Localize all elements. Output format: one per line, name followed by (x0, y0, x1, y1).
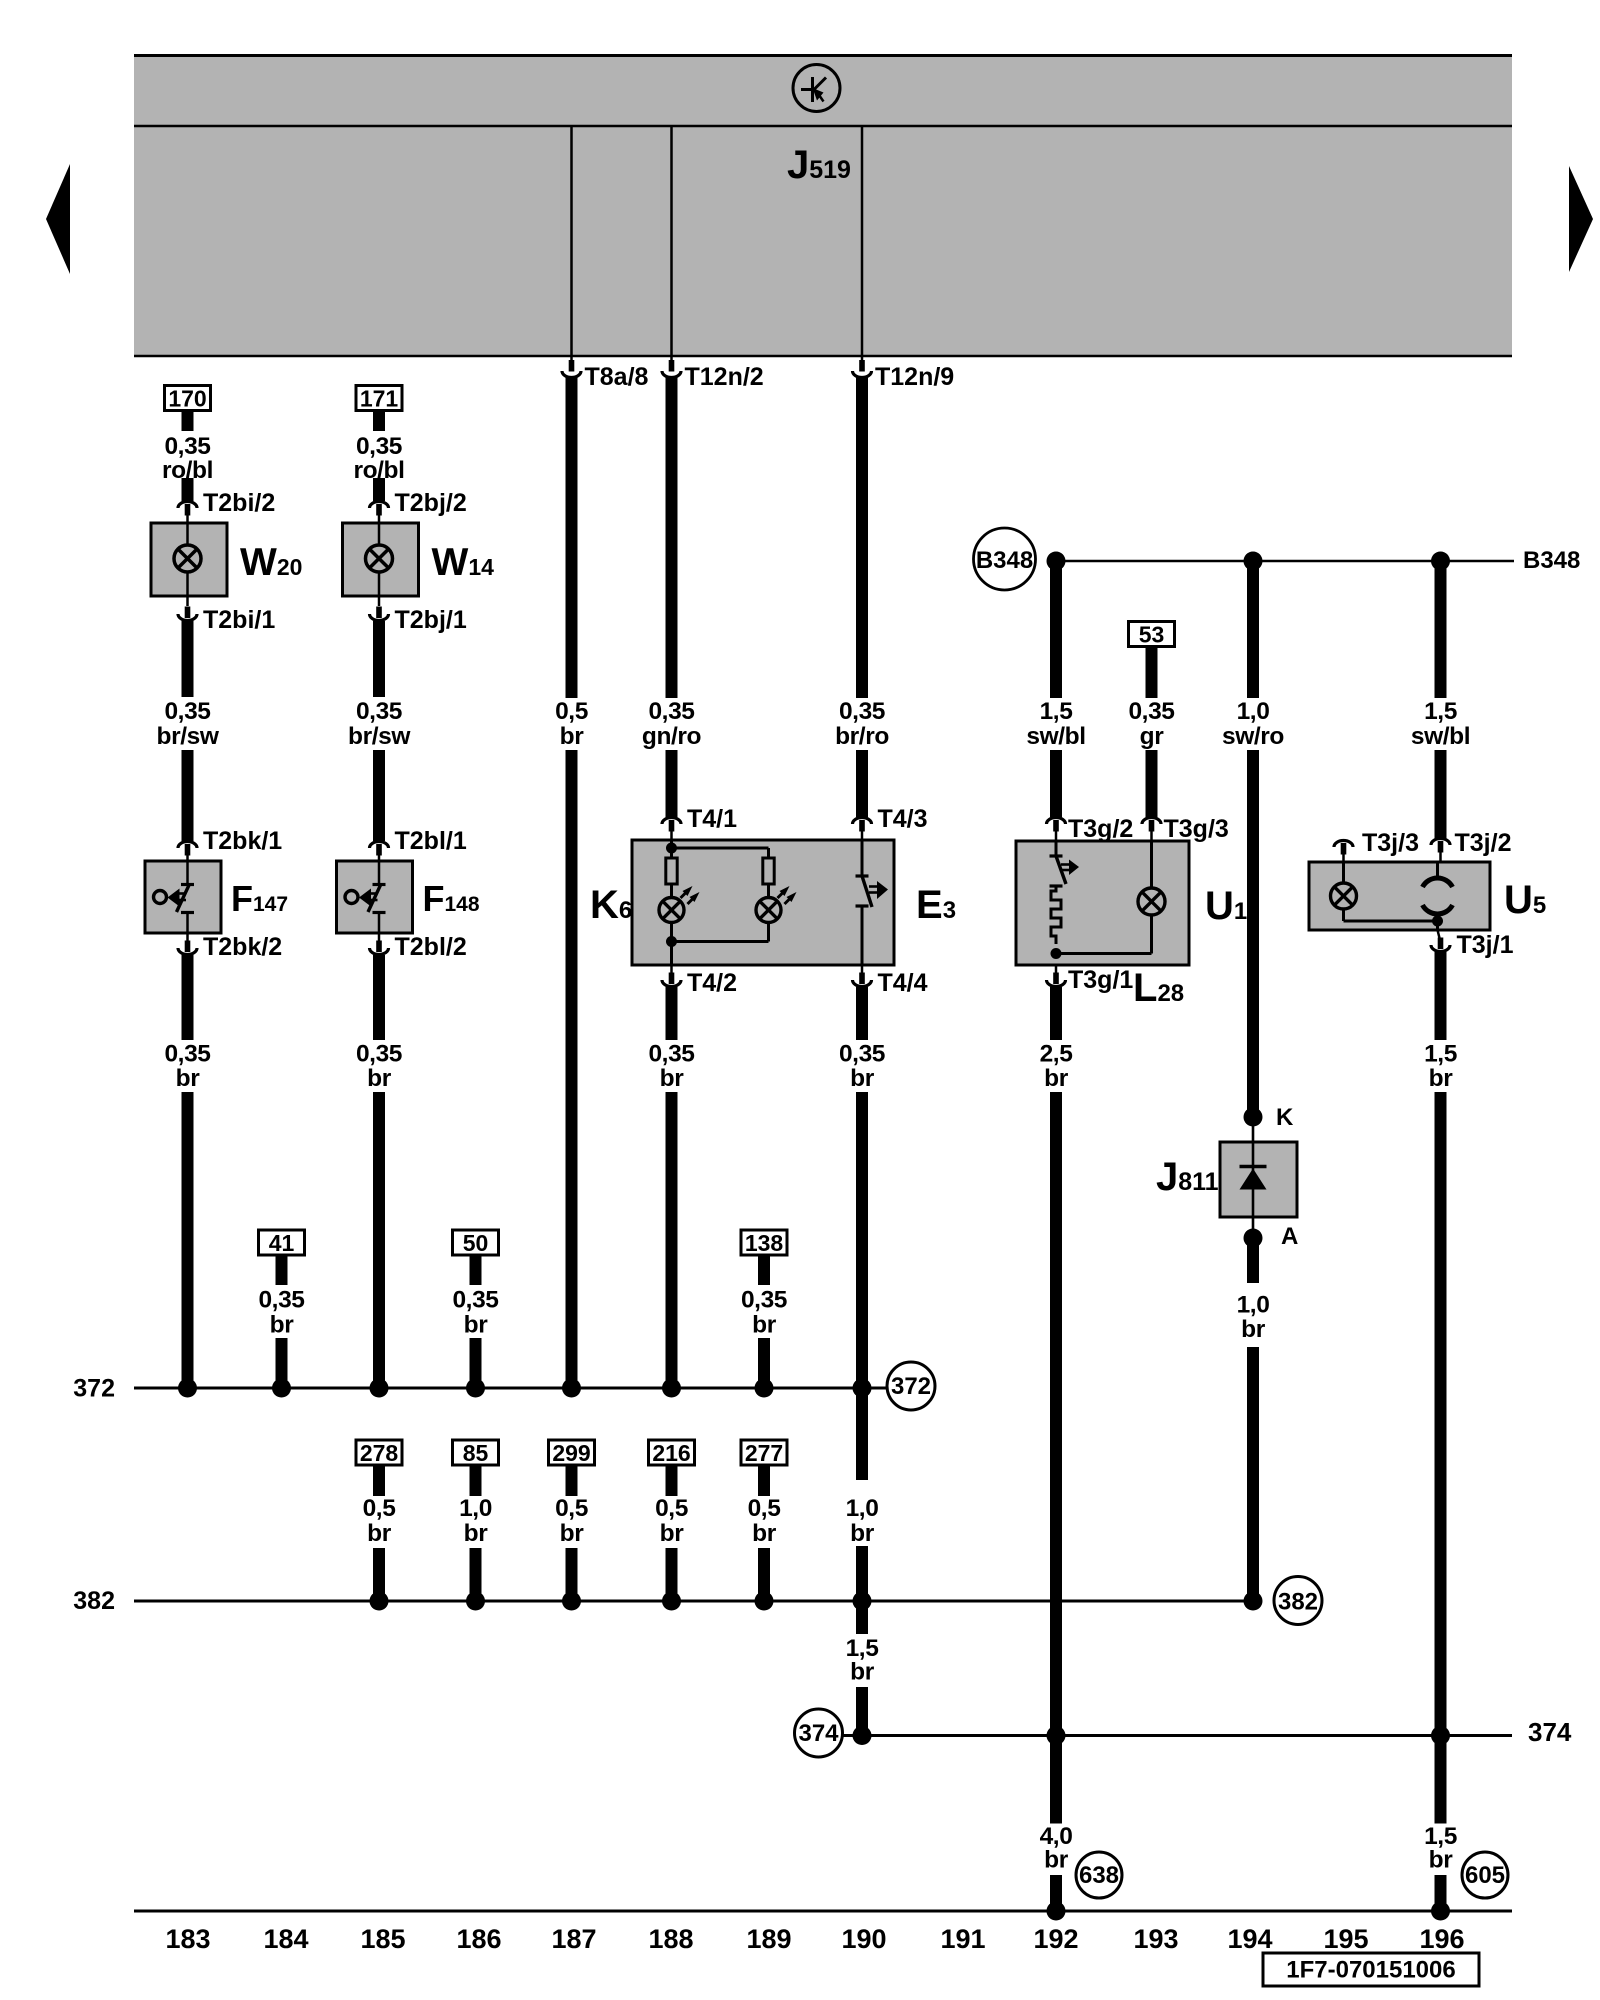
junction on 382 at x=1253 (1244, 1592, 1263, 1611)
switch symbol E3 (856, 876, 889, 907)
svg-text:193: 193 (1133, 1924, 1178, 1954)
wire 0,35 gn/ro upper segment (col 188) (666, 377, 678, 698)
svg-text:299: 299 (552, 1440, 590, 1466)
wire 0,5 br lower segment (col 187) (566, 750, 578, 1388)
wire 0,35 br/ro upper segment (col 190) (856, 377, 868, 698)
svg-text:T3j/3: T3j/3 (1362, 829, 1419, 857)
svg-text:br: br (270, 1312, 295, 1339)
junction on 382 at x=671.5 (662, 1592, 681, 1611)
terminal T8a/8 on J519 (562, 355, 649, 391)
svg-text:0,5: 0,5 (655, 1495, 688, 1522)
svg-text:194: 194 (1227, 1924, 1272, 1954)
svg-text:br/sw: br/sw (348, 723, 411, 750)
svg-text:br: br (560, 1520, 585, 1547)
connector T2bk/1 (178, 827, 282, 861)
svg-text:1,5: 1,5 (1040, 698, 1073, 725)
wire 1,0 br upper segment (col 190) (856, 1388, 868, 1480)
svg-text:W14: W14 (432, 541, 495, 584)
svg-text:186: 186 (456, 1924, 501, 1954)
svg-text:br: br (850, 1520, 875, 1547)
svg-text:T4/4: T4/4 (878, 969, 928, 997)
node 382 circle (1274, 1577, 1322, 1625)
label 0,35 br (col 188) (648, 1041, 694, 1093)
node 374 circle (795, 1709, 843, 1757)
connector T2bl/1 (370, 827, 467, 861)
switch F147 box (145, 861, 221, 933)
wire 1,5 sw/bl upper segment (col 196) (1435, 561, 1447, 698)
wire 1,5 br bottom segment (col 196) (1435, 1875, 1447, 1911)
svg-text:382: 382 (73, 1587, 115, 1615)
svg-text:0,35: 0,35 (356, 1041, 402, 1068)
svg-text:0,35: 0,35 (839, 1041, 885, 1068)
connector T3j/3 (1334, 829, 1419, 862)
connector T4/3 (853, 805, 928, 840)
wire 0,35 br lower segment (col 185) (373, 1092, 385, 1388)
svg-text:605: 605 (1465, 1862, 1505, 1889)
connector T3j/2 (1431, 829, 1511, 862)
U5 sender symbol (1423, 878, 1453, 914)
svg-text:B348: B348 (1523, 547, 1580, 574)
U1 lamp (1138, 888, 1165, 915)
svg-text:T3j/1: T3j/1 (1457, 931, 1514, 959)
warning lamp W20 box (151, 523, 227, 596)
connector T2bi/2 (178, 489, 275, 523)
wire 0,35 br/sw upper segment (col 183) (182, 621, 194, 697)
wire 1,5 sw/bl lower segment (col 192) (1050, 750, 1062, 817)
K6 branch 2 lamp (756, 886, 797, 923)
svg-text:0,35: 0,35 (164, 698, 210, 725)
wire 2,5 br upper segment (col 192) (1050, 987, 1062, 1040)
node K (1244, 1104, 1295, 1131)
svg-text:1,0: 1,0 (459, 1495, 492, 1522)
label U1 (1205, 884, 1247, 928)
terminal T12n/2 on J519 (662, 355, 764, 391)
label 1,0 br (col 190) (846, 1495, 879, 1547)
svg-text:170: 170 (168, 386, 206, 412)
label 0,35 br/sw (col 183) (157, 698, 220, 750)
svg-text:br: br (1044, 1847, 1069, 1874)
svg-text:F148: F148 (423, 878, 480, 919)
wire 1,0 sw/ro upper segment (col 194) (1247, 561, 1259, 698)
diode J811 box (1220, 1126, 1297, 1217)
svg-text:1,5: 1,5 (1424, 698, 1457, 725)
connector T4/1 (662, 805, 737, 840)
warning lamp W14 box (343, 523, 419, 596)
L28 heating element zigzag (1051, 886, 1061, 944)
svg-text:1,5: 1,5 (1424, 1041, 1457, 1068)
svg-text:0,35: 0,35 (839, 698, 885, 725)
svg-text:L28: L28 (1133, 966, 1184, 1010)
K6 branch 2 resistor (763, 858, 774, 884)
svg-text:188: 188 (648, 1924, 693, 1954)
svg-text:br: br (1241, 1316, 1266, 1343)
svg-text:2,5: 2,5 (1040, 1041, 1073, 1068)
wire 0,5 br upper segment (below box 299) (566, 1465, 578, 1496)
junction on 374 at x=862 (853, 1726, 872, 1745)
label 0,5 br (below box 216) (655, 1495, 688, 1547)
wire 1,5 sw/bl upper segment (col 192) (1050, 561, 1062, 698)
svg-text:br/sw: br/sw (157, 723, 220, 750)
wire 0,35 br upper segment (below box 138) (758, 1255, 770, 1285)
connection point 53 box (1129, 622, 1175, 648)
label 1,5 br (col 190 below 382) (846, 1635, 879, 1686)
svg-text:1F7-070151006: 1F7-070151006 (1286, 1957, 1455, 1984)
wire 0,5 br upper segment (below box 278) (373, 1465, 385, 1496)
wire 0,35 gr upper segment (col 193) (1146, 646, 1158, 698)
node 374 bus line (843, 1717, 1572, 1747)
earth point 605 circle (1462, 1852, 1508, 1898)
wire 0,35 br/sw upper segment (col 185) (373, 621, 385, 697)
svg-text:1,0: 1,0 (846, 1495, 879, 1522)
earth point 638 circle (1076, 1852, 1122, 1898)
wire 1,0 br lower segment (col 190) (856, 1546, 868, 1601)
svg-text:50: 50 (463, 1230, 489, 1256)
wire 0,35 gn/ro lower segment (col 188) (666, 750, 678, 817)
svg-text:T3g/1: T3g/1 (1068, 966, 1133, 994)
svg-text:138: 138 (745, 1230, 784, 1256)
junction on 372 at x=571.5 (562, 1379, 581, 1398)
label 0,5 br (below box 278) (363, 1495, 396, 1547)
connector T3g/1 (1047, 965, 1134, 994)
label 0,35 br (below box 50) (452, 1287, 498, 1339)
bus symbol circle on J519 (793, 65, 840, 112)
svg-text:br: br (1044, 1065, 1069, 1092)
junction on 372 at x=475.5 (466, 1379, 485, 1398)
U5 sender wiring (1436, 862, 1439, 930)
svg-text:br: br (176, 1065, 201, 1092)
connector T4/2 (662, 965, 737, 997)
node 372 bus line (73, 1375, 887, 1403)
svg-text:br: br (660, 1520, 685, 1547)
wire 0,35 br lower segment (below box 138) (758, 1338, 770, 1388)
connector T2bj/2 (370, 489, 467, 523)
svg-text:0,35: 0,35 (356, 698, 402, 725)
junction on 382 at x=764 (755, 1592, 774, 1611)
connection point 170 box (165, 386, 211, 412)
terminal T12n/9 on J519 (853, 355, 955, 391)
label 0,35 br (below box 41) (258, 1287, 304, 1339)
svg-text:K6: K6 (590, 883, 632, 927)
J519 internal wire to T12n/9 (861, 127, 864, 355)
svg-text:br: br (752, 1312, 777, 1339)
svg-text:B348: B348 (976, 547, 1033, 574)
label W20 (240, 541, 302, 584)
U5 lamp wiring (1344, 862, 1438, 921)
connection point 85 box (453, 1440, 499, 1466)
label 0,35 gn/ro (col 188) (642, 698, 702, 750)
K6 top junction (666, 843, 677, 854)
junction on B348 at x=1056 (1047, 552, 1066, 571)
switch symbol F147 (154, 884, 195, 913)
K6 branch 1 wiring (670, 840, 673, 965)
svg-text:278: 278 (360, 1440, 399, 1466)
wire 0,35 br/sw lower segment (col 183) (182, 750, 194, 841)
svg-text:185: 185 (360, 1924, 405, 1954)
junction on 382 at x=475.5 (466, 1592, 485, 1611)
label 0,35 br/ro (col 190) (835, 698, 889, 750)
wire 0,35 br lower segment (col 190) (856, 1092, 868, 1388)
label W14 (432, 541, 495, 584)
wire 0,35 br lower segment (col 183) (182, 1092, 194, 1388)
junction on 372 at x=764 (755, 1379, 774, 1398)
svg-text:F147: F147 (231, 878, 288, 919)
node 382 bus line (73, 1587, 1253, 1615)
svg-text:190: 190 (841, 1924, 886, 1954)
svg-text:T2bk/2: T2bk/2 (203, 933, 282, 961)
svg-text:0,5: 0,5 (748, 1495, 781, 1522)
svg-text:T3j/2: T3j/2 (1455, 829, 1512, 857)
K6 branch 2 wiring (672, 848, 769, 942)
svg-text:372: 372 (891, 1373, 931, 1400)
svg-text:T4/3: T4/3 (878, 805, 928, 833)
junction on 374 at x=1056 (1047, 1726, 1066, 1745)
node 372 circle (887, 1362, 935, 1410)
label 0,35 ro/bl (col 185) (353, 433, 404, 484)
svg-text:0,35: 0,35 (258, 1287, 304, 1314)
U1 internal wiring (1056, 841, 1152, 954)
connector T3j/1 (1431, 930, 1514, 959)
svg-text:277: 277 (745, 1440, 783, 1466)
wire 0,35 gr lower segment (col 193) (1146, 750, 1158, 817)
wire 0,35 br upper segment (col 183) (182, 955, 194, 1040)
svg-text:382: 382 (1278, 1589, 1318, 1616)
wire 0,35 ro/bl upper segment (col 185) (373, 410, 385, 431)
L28 switch symbol (1050, 856, 1080, 886)
svg-text:192: 192 (1033, 1924, 1078, 1954)
L28 switch wiring (1055, 841, 1058, 855)
wire 0,5 br upper segment (col 187) (566, 377, 578, 698)
connection point 278 box (356, 1440, 402, 1466)
junction on 372 at x=281.5 (272, 1379, 291, 1398)
svg-text:0,35: 0,35 (356, 433, 402, 460)
wire 0,5 br upper segment (below box 277) (758, 1465, 770, 1496)
svg-text:sw/bl: sw/bl (1411, 723, 1470, 750)
svg-text:216: 216 (652, 1440, 690, 1466)
wire 0,35 br upper segment (col 190) (856, 987, 868, 1040)
svg-text:br: br (850, 1065, 875, 1092)
svg-text:191: 191 (940, 1924, 985, 1954)
svg-text:T3g/2: T3g/2 (1068, 815, 1133, 843)
label U5 (1504, 878, 1546, 922)
label 1,5 sw/bl (col 196) (1411, 698, 1470, 750)
svg-text:br: br (464, 1312, 489, 1339)
wire 0,35 br lower segment (below box 41) (276, 1338, 288, 1388)
junction on 372 at x=862 (853, 1379, 872, 1398)
connection point 138 box (741, 1230, 787, 1256)
label F148 (423, 878, 480, 919)
control unit J519 box (134, 54, 1512, 357)
switch E3 wiring (861, 840, 864, 965)
svg-text:0,5: 0,5 (555, 1495, 588, 1522)
connection point 277 box (741, 1440, 787, 1466)
svg-text:T4/2: T4/2 (687, 969, 737, 997)
junction on B348 at x=1253 (1244, 552, 1263, 571)
wire 1,5 br lower segment (col 190 below 382) (856, 1687, 868, 1736)
junction on 372 at x=379 (370, 1379, 389, 1398)
svg-text:374: 374 (1528, 1717, 1572, 1747)
svg-text:W20: W20 (240, 541, 302, 584)
junction on 382 at x=571.5 (562, 1592, 581, 1611)
connection point 299 box (549, 1440, 595, 1466)
svg-text:85: 85 (463, 1440, 489, 1466)
label 0,35 br/sw (col 185) (348, 698, 411, 750)
svg-text:T8a/8: T8a/8 (585, 363, 649, 391)
svg-text:T2bl/2: T2bl/2 (395, 933, 467, 961)
svg-text:br: br (1429, 1847, 1454, 1874)
wire 0,35 ro/bl lower segment (col 183) (182, 478, 194, 501)
label 4,0 br (col 192) (1040, 1823, 1073, 1874)
node B348 line (1048, 547, 1580, 574)
switch F148 box (337, 861, 413, 933)
connector T2bk/2 (178, 933, 282, 961)
junction on 382 at x=862 (853, 1592, 872, 1611)
connector T2bj/1 (370, 596, 467, 634)
label 0,35 br (col 183) (164, 1041, 210, 1093)
label 1,5 br (col 196) (1424, 1041, 1457, 1093)
svg-text:0,35: 0,35 (164, 1041, 210, 1068)
fuel gauge sender U5 box (1309, 862, 1490, 930)
svg-text:br: br (560, 723, 585, 750)
svg-text:K: K (1276, 1104, 1294, 1131)
wire 1,5 sw/bl lower segment (col 196) (1435, 750, 1447, 838)
label 2,5 br (col 192) (1040, 1041, 1073, 1093)
svg-text:0,35: 0,35 (164, 433, 210, 460)
wire 0,35 br upper segment (below box 50) (470, 1255, 482, 1285)
label J519 (787, 143, 851, 187)
svg-text:183: 183 (165, 1924, 210, 1954)
svg-text:T12n/9: T12n/9 (875, 363, 954, 391)
label 1,0 br (col 194) (1237, 1292, 1270, 1344)
label 0,35 br (col 190) (839, 1041, 885, 1093)
label J811 (1156, 1155, 1219, 1199)
svg-text:372: 372 (73, 1375, 115, 1403)
svg-text:184: 184 (263, 1924, 308, 1954)
svg-text:br: br (752, 1520, 777, 1547)
label 0,35 ro/bl (col 183) (162, 433, 213, 484)
right continuation arrow (1569, 166, 1593, 272)
wire 1,0 br lower segment (col 194) (1247, 1347, 1259, 1601)
wire 0,35 ro/bl upper segment (col 183) (182, 410, 194, 431)
svg-text:T2bj/1: T2bj/1 (395, 606, 467, 634)
svg-text:gn/ro: gn/ro (642, 723, 702, 750)
lamp symbol W14 (366, 545, 393, 572)
svg-text:T2bk/1: T2bk/1 (203, 827, 282, 855)
label 0,35 br (col 185) (356, 1041, 402, 1093)
wire 0,5 br lower segment (below box 216) (666, 1548, 678, 1601)
label 1,0 sw/ro (col 194) (1222, 698, 1284, 750)
left continuation arrow (46, 164, 70, 274)
svg-text:E3: E3 (916, 883, 956, 927)
connection point 171 box (356, 386, 402, 412)
svg-text:T4/1: T4/1 (687, 805, 737, 833)
U1 junction (1051, 948, 1062, 959)
wire 0,35 br upper segment (below box 41) (276, 1255, 288, 1285)
ground junction col 196 on bottom line (1431, 1902, 1450, 1921)
junction on 372 at x=187.5 (178, 1379, 197, 1398)
current track numbers 183-196 (165, 1924, 1464, 1954)
junction on 372 at x=671.5 (662, 1379, 681, 1398)
indicator unit K6/E3 box (632, 840, 894, 965)
U5 lamp (1331, 883, 1357, 909)
svg-text:0,35: 0,35 (452, 1287, 498, 1314)
J519 internal wire to T8a/8 (570, 127, 573, 355)
svg-text:1,0: 1,0 (1237, 698, 1270, 725)
svg-text:53: 53 (1139, 622, 1165, 648)
wire 0,5 br lower segment (below box 277) (758, 1548, 770, 1601)
label 1,5 sw/bl (col 192) (1026, 698, 1085, 750)
label L28 (1133, 966, 1184, 1010)
wire 0,35 br upper segment (col 188) (666, 987, 678, 1040)
wire 4,0 br bottom segment (col 192) (1050, 1875, 1062, 1911)
svg-text:187: 187 (551, 1924, 596, 1954)
wire 1,5 br upper segment (col 190 below 382) (856, 1601, 868, 1634)
connector T4/4 (853, 965, 928, 997)
svg-text:0,35: 0,35 (648, 698, 694, 725)
K6 bottom junction (666, 936, 677, 947)
switch symbol F148 (345, 884, 386, 913)
wire 1,0 br lower segment (below box 85) (470, 1548, 482, 1601)
wire 0,35 br upper segment (col 185) (373, 955, 385, 1040)
label 0,5 br (below box 277) (748, 1495, 781, 1547)
svg-text:sw/bl: sw/bl (1026, 723, 1085, 750)
svg-text:189: 189 (746, 1924, 791, 1954)
bottom current track line (134, 1910, 1512, 1913)
wire 0,35 br/sw lower segment (col 185) (373, 750, 385, 841)
svg-text:br/ro: br/ro (835, 723, 889, 750)
label F147 (231, 878, 288, 919)
cigarette lighter U1 box (1016, 841, 1189, 965)
svg-text:T2bj/2: T2bj/2 (395, 489, 467, 517)
label 0,5 br (below box 299) (555, 1495, 588, 1547)
wire 0,35 br lower segment (below box 50) (470, 1338, 482, 1388)
wire 0,35 ro/bl lower segment (col 185) (373, 478, 385, 501)
K6 branch 1 resistor (666, 858, 677, 884)
svg-text:br: br (850, 1659, 875, 1686)
svg-text:0,35: 0,35 (648, 1041, 694, 1068)
junction on 382 at x=379 (370, 1592, 389, 1611)
connector T2bl/2 (370, 933, 467, 961)
wire 0,35 br lower segment (col 188) (666, 1092, 678, 1388)
connector T3g/2 (1047, 815, 1134, 843)
wire 0,5 br upper segment (below box 216) (666, 1465, 678, 1496)
svg-text:U1: U1 (1205, 884, 1247, 928)
wire 1,5 br long segment (col 196) (1435, 1092, 1447, 1824)
U5 junction (1432, 916, 1443, 927)
node B348 circle (974, 528, 1036, 590)
diode symbol J811 (1240, 1167, 1267, 1190)
svg-text:br: br (1429, 1065, 1454, 1092)
wire 1,0 br upper segment (col 194) (1247, 1244, 1259, 1283)
wire 1,5 br upper segment (col 196) (1435, 952, 1447, 1040)
svg-text:196: 196 (1419, 1924, 1464, 1954)
svg-text:br: br (367, 1065, 392, 1092)
wire 1,0 sw/ro lower segment (col 194) (1247, 750, 1259, 1110)
svg-text:T2bi/2: T2bi/2 (203, 489, 275, 517)
lamp symbol W20 (174, 545, 201, 572)
svg-text:0,5: 0,5 (363, 1495, 396, 1522)
J519 internal wire to T12n/2 (670, 127, 673, 355)
connection point 41 box (259, 1230, 305, 1256)
svg-text:374: 374 (798, 1720, 839, 1747)
svg-text:T12n/2: T12n/2 (685, 363, 764, 391)
svg-text:J811: J811 (1156, 1155, 1219, 1199)
svg-text:A: A (1281, 1223, 1298, 1250)
connection point 50 box (453, 1230, 499, 1256)
label 0,35 br (below box 138) (741, 1287, 787, 1339)
svg-text:gr: gr (1140, 723, 1165, 750)
svg-text:br: br (660, 1065, 685, 1092)
label 1,0 br (below box 85) (459, 1495, 492, 1547)
